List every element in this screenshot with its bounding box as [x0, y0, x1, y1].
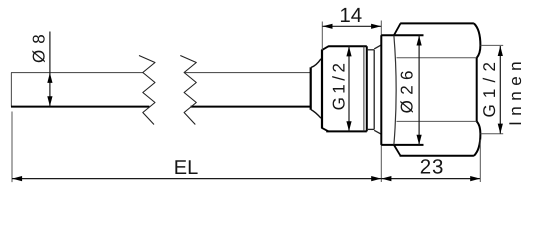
dimension 23 text — [420, 155, 444, 178]
dimension EL extension line left — [11, 112, 13, 183]
hex top face line — [381, 34, 423, 36]
hex corner diagonal bottom left — [394, 145, 401, 156]
svg-text:Ø8: Ø8 — [30, 28, 49, 63]
probe tube left end cap — [10, 73, 12, 107]
hex corner diagonal top left — [394, 23, 401, 35]
dimension Ø8 arrow down — [47, 96, 52, 106]
thread bottom edge — [326, 130, 367, 132]
hex face boundary lower line — [397, 120, 477, 122]
probe tube left segment top line — [11, 72, 143, 74]
thread runout thin line — [363, 46, 365, 131]
thread end line — [366, 46, 368, 131]
hex left face arc — [394, 36, 396, 145]
hex top edge — [400, 22, 474, 24]
collar cone upper diagonal — [311, 59, 321, 68]
hex left end face — [380, 35, 382, 145]
dimension Ø26 arrow up — [417, 36, 422, 46]
break line right zigzag — [180, 56, 196, 125]
thread top edge — [328, 45, 367, 47]
probe tube left segment bottom line — [11, 106, 149, 108]
dimension G1/2 thread arrow up — [346, 46, 351, 56]
thread G1/2 left edge — [321, 50, 323, 128]
hex bottom edge — [400, 155, 474, 157]
dimension G1/2 Innen arrow up — [498, 46, 503, 56]
thread bottom chamfer — [322, 128, 329, 132]
chamfer cone to hex lower — [374, 130, 381, 134]
probe tube right segment bottom line — [191, 106, 312, 108]
svg-text:23: 23 — [420, 155, 444, 178]
dimension 23 extension line right — [479, 140, 481, 183]
svg-text:Innen: Innen — [506, 56, 525, 126]
dimension 23 arrow right — [470, 176, 480, 181]
probe tube right segment top line — [185, 72, 311, 74]
dimension 23 arrow left — [381, 176, 391, 181]
dimension 14 arrow right — [371, 24, 381, 29]
dimension EL arrow right — [371, 176, 381, 181]
dimension Ø8 line — [49, 32, 51, 107]
svg-text:G1/2: G1/2 — [329, 60, 348, 111]
svg-text:G1/2: G1/2 — [480, 56, 499, 118]
dimension EL arrow left — [12, 176, 22, 181]
undercut groove face vertical — [373, 50, 375, 130]
hex right corner arc bottom — [474, 121, 481, 155]
hex bottom face line — [381, 144, 423, 146]
dimension G1/2 Innen text G1/2 — [480, 56, 499, 118]
collar cone lower diagonal — [311, 110, 321, 119]
dimension Ø8 arrow up — [47, 73, 52, 83]
dimension Ø26 text — [398, 65, 417, 113]
dimension Ø8 text — [30, 28, 49, 63]
hex right edge vertical — [476, 58, 478, 122]
dimension G1/2 Innen extension line bottom — [481, 133, 504, 135]
hex left extension line full — [380, 21, 382, 183]
dimension G1/2 Innen arrow down — [498, 124, 503, 134]
dimension Ø26 arrow down — [417, 135, 422, 145]
break line left zigzag — [139, 56, 155, 125]
dimension G1/2 thread arrow down — [346, 121, 351, 131]
dimension 14 extension line left — [321, 22, 323, 50]
dimension 14 line — [322, 25, 381, 27]
dimension G1/2 Innen line — [499, 46, 501, 134]
chamfer cone to hex upper — [374, 45, 381, 49]
svg-text:Ø26: Ø26 — [398, 65, 417, 113]
dimension Ø26 line — [418, 35, 420, 145]
dimension G1/2 thread text — [329, 60, 348, 111]
dimension G1/2 thread line — [348, 46, 350, 131]
svg-text:EL: EL — [174, 157, 198, 179]
hex right corner arc top — [474, 23, 481, 57]
dimension 14 arrow left — [323, 24, 333, 29]
undercut groove bottom line — [367, 128, 374, 130]
dimension G1/2 Innen text Innen — [506, 56, 525, 126]
collar base vertical line — [310, 67, 312, 110]
undercut groove top line — [367, 49, 374, 51]
thread top chamfer — [322, 46, 329, 50]
dimension G1/2 Innen extension line top — [481, 44, 504, 46]
dimension EL text — [174, 157, 198, 179]
hex face boundary upper line — [397, 57, 477, 59]
dimension EL and 23 shared line — [12, 178, 480, 180]
svg-text:14: 14 — [339, 4, 362, 27]
dimension 14 text — [339, 4, 362, 27]
